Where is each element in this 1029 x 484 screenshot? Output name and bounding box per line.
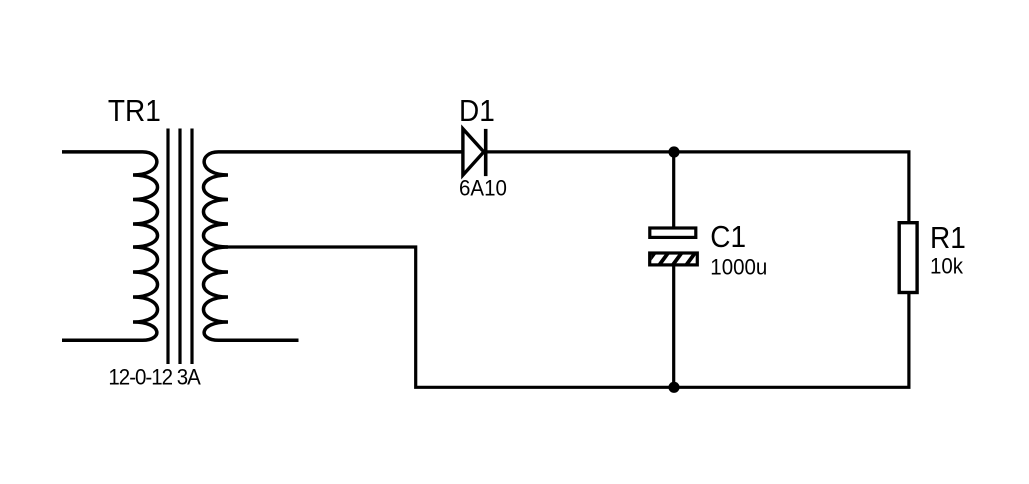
node B: junction dot at bottom rail / capacitor bottom [668, 382, 679, 393]
label C1 [710, 220, 746, 255]
value 12-0-12 3A for transformer TR1 [108, 365, 199, 391]
diode D1 cathode bar [484, 129, 488, 176]
wire: capacitor C1 bottom to bottom rail node B [672, 265, 675, 387]
diode D1 triangle (anode) [463, 129, 484, 175]
value 1000u for capacitor C1 [710, 255, 767, 281]
transformer TR1 core [168, 129, 192, 365]
wire: diode cathode to top-right corner and down to resistor R1 [486, 152, 909, 223]
wire: secondary center tap down to bottom rail through node B to resistor R1 [226, 247, 911, 387]
value 6A10 for diode D1 [459, 176, 507, 202]
label TR1 [108, 94, 161, 129]
capacitor C1 top plate (positive) [650, 228, 696, 237]
transformer TR1 primary winding with top and bottom leads [62, 152, 158, 340]
wire: top node A down to capacitor C1 [672, 152, 675, 228]
label R1 [930, 221, 966, 256]
resistor R1 body [899, 223, 917, 293]
label D1 [459, 94, 495, 129]
capacitor C1 bottom plate (negative, hatched) [644, 250, 711, 268]
value 10k for resistor R1 [930, 254, 963, 280]
node A: junction dot at diode output / capacitor top [668, 146, 679, 157]
transformer TR1 secondary winding with top lead wire to diode and bottom stub lead [203, 152, 463, 340]
wire: resistor R1 bottom to bottom rail [907, 294, 910, 387]
